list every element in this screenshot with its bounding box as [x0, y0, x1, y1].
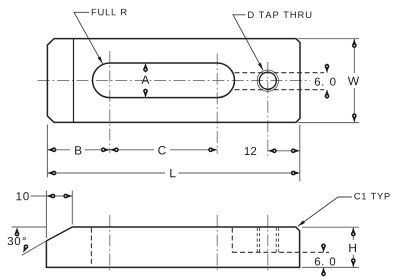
tapped hole D tap drill circle	[259, 72, 276, 89]
leader note C1 TYP	[354, 193, 389, 200]
dimension 6.0 groove height (side view)	[315, 257, 320, 265]
hidden line slot left end (side view)	[90, 228, 92, 267]
dimension B	[75, 146, 81, 154]
extension line right edge for 12 and L	[299, 125, 301, 182]
top view vertical centerline slot left radius center	[109, 51, 111, 153]
hidden groove bottom line (side view)	[232, 251, 329, 253]
leader note D TAP THRU	[248, 12, 311, 19]
hidden tap hole minor diameter left (side view)	[259, 228, 261, 252]
top view chamfer edge projection line	[73, 39, 75, 123]
side view vertical centerline slot left	[109, 215, 111, 273]
tapped hole D thread major circle	[257, 70, 278, 91]
hidden tap hole major diameter left (side view)	[256, 228, 258, 252]
dimension 12	[245, 147, 250, 155]
dimension 6.0 tap drill (top view)	[315, 78, 320, 86]
side view vertical centerline hole	[267, 215, 269, 273]
top view vertical centerline slot right radius center	[216, 54, 218, 154]
top view slot outline	[93, 63, 235, 98]
top view vertical centerline tapped hole	[267, 62, 269, 156]
dimension W part width	[348, 77, 359, 85]
extension line left edge for B and L	[46, 125, 48, 178]
dimension L overall length	[170, 169, 175, 177]
top view horizontal centerline	[38, 79, 310, 81]
hidden tap hole minor diameter right (side view)	[275, 228, 277, 252]
hidden tap hole major diameter right (side view)	[278, 228, 280, 252]
hidden groove edge lower (top view)	[235, 89, 325, 91]
hidden line slot right end (side view)	[231, 228, 233, 253]
side view vertical centerline slot right	[216, 215, 218, 273]
top view part outline	[47, 39, 300, 123]
dimension 10 chamfer length	[16, 192, 21, 200]
dimension H thickness	[349, 244, 356, 252]
side view part outline with 30 deg chamfer and C1 corner	[46, 227, 299, 267]
hidden groove edge upper (top view)	[235, 72, 325, 74]
dimension 30 degree chamfer angle	[8, 237, 13, 245]
dimension A slot width	[141, 76, 149, 84]
dimension C	[158, 146, 166, 154]
leader note FULL R	[92, 9, 127, 16]
